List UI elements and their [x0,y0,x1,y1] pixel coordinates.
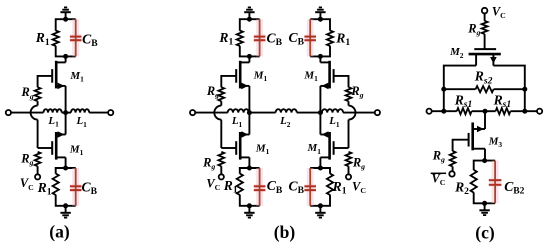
wire Rg-gate (c) [484,34,486,49]
label R1 BR (b) [332,179,347,197]
label L1 right (b) [328,115,340,129]
wire gate (bottom) B-left [221,147,236,149]
capacitor CB (top) A [70,19,82,56]
wire mid (a) [62,112,71,114]
wire hop-down B-left [220,120,222,148]
resistor Rg (top) B-right [346,87,352,101]
terminal input (b) [190,110,195,115]
wire mid-left (c) [472,110,485,112]
wire source-down B-left [248,86,250,113]
terminal VC B-right [346,174,351,179]
wire gate (bottom) A [38,147,53,149]
label VC BR (b) [352,180,366,196]
wire VC-Rg (c) [484,13,486,21]
wire input line (b) [195,112,228,114]
wire input line (a) [11,112,44,114]
resistor Rg top (c) [482,21,488,34]
wire source-down B-right [319,86,321,113]
node bias-bottom B-right [318,54,323,59]
label Rg TR (b) [350,84,363,100]
svg-text:(a): (a) [49,222,70,242]
resistor Rs2 (c) [476,86,494,92]
node Rs1 left (c) [441,109,446,114]
capacitor CB (top) B-left [254,19,266,56]
ground (c) [479,203,489,215]
wire hop-down B-right [348,120,350,148]
node loop-top (c) [482,158,487,163]
wire source-up B-left [248,113,250,135]
wire mid-right (c) [485,110,496,112]
wire top bias loop A [56,19,76,56]
resistor R1 (top) B-left [237,31,243,46]
label M2 (c) [449,46,464,60]
node bias-top (bottom loop) B-left [247,166,252,171]
label VC BL (b) [206,177,220,193]
wire Rg-to-hop B-right [348,101,350,105]
wire source-up B-right [319,113,321,135]
label CB2 (c) [504,179,524,197]
wire out-right (c) [510,110,537,112]
label VC (a) [20,176,34,192]
wire bottom bias loop A [56,168,76,206]
resistor Rs1 left (c) [457,108,472,114]
label CB top (a) [82,31,98,49]
inductor L1 right (a) [71,109,89,112]
wire source rail right (c) [493,66,524,112]
wire L1-L2 (b) [249,112,276,114]
wire gate (top) A [38,76,53,87]
wire source-up A [65,113,67,135]
wire bottom bias loop B-right [310,168,330,206]
label R1 BL (b) [223,178,238,196]
node center (c) [483,109,488,114]
label L2 (b) [279,115,291,129]
wire drain-up B-right [319,56,321,62]
transistor M1 (top) B-left [236,61,249,89]
wire drain-down A [65,157,67,168]
label (c) [475,223,495,243]
node Rs2 left (c) [441,87,446,92]
node top-rail A [63,17,68,22]
wire gate (top) B-right [334,76,349,87]
wire crossover hop B-right [349,106,356,120]
resistor R1 (bottom) A [53,174,59,195]
node loop-bottom (c) [482,201,487,206]
terminal VC A [35,174,40,179]
label Rg bottom (c) [432,149,445,165]
wire L2-L1 (b) [297,112,322,114]
ground (bottom) B-right [315,206,325,218]
label R1 TL (b) [218,30,233,48]
transistor M1 (top) A [52,61,65,89]
resistor R1 (top) A [53,31,59,46]
terminal left (c) [427,109,432,114]
inductor L1 left (a) [44,109,62,112]
transistor M2 (c) [469,49,501,66]
wire gate (bottom) B-right [334,147,349,149]
svg-text:(c): (c) [475,223,495,243]
wire Rg-to-VC B-left [220,166,222,174]
resistor Rg (bottom) B-right [346,152,352,166]
wire output line (b) [343,112,375,114]
wire Rg-to-VC B-right [348,166,350,174]
resistor R2 (c) [471,170,477,193]
label CB bottom (a) [82,179,98,197]
wire bottom bias loop B-left [240,168,260,206]
terminal VC (c) [482,8,488,14]
node bottom-rail B-left [247,203,252,208]
label R1 top (a) [35,30,50,48]
inductor L1 left (b) [228,109,249,112]
label M1 BR (b) [307,142,322,156]
ground (top) B-right [315,7,325,19]
wire gate (top) B-left [221,76,236,87]
wire Rs2 right (c) [494,88,525,90]
label R2 (c) [454,180,469,198]
wire M3 drain-down (c) [484,149,486,161]
label M1 top (a) [69,70,84,84]
label L1 right (a) [76,115,88,129]
label Rg TL (b) [206,84,219,100]
terminal VC B-left [219,174,224,179]
label Rs2 (c) [474,69,493,87]
wire source-down A [65,86,67,113]
resistor Rg (bottom) B-left [218,152,224,166]
wire Rg-to-hop B-left [220,101,222,105]
node bottom-rail B-right [318,203,323,208]
label L1 left (b) [231,115,243,129]
wire in-left (c) [432,110,457,112]
node bias-bottom B-left [247,54,252,59]
resistor Rs1 right (c) [496,108,511,114]
label Rs1 left (c) [454,93,473,111]
transistor M1 (bottom) B-right [320,131,333,159]
label L1 left (a) [47,115,59,129]
label Rg top (c) [467,22,480,38]
capacitor CB (top) B-right [304,19,316,56]
node bias-top (bottom loop) A [63,166,68,171]
label (a) [49,222,70,242]
wire crossover hop B-left [214,106,221,120]
resistor R1 (bottom) B-right [327,174,333,195]
label VC-bar (c) [431,171,446,187]
capacitor CB (bottom) B-left [254,168,266,206]
node center (a) [63,110,68,115]
terminal output (b) [375,110,380,115]
wire Rg-VCbar (c) [452,167,454,172]
wire Rs2 left (c) [444,88,476,90]
terminal input (a) [6,110,11,115]
node Rs1 right (c) [522,109,527,114]
transistor M1 (top) B-right [320,61,333,89]
label Rg BR (b) [352,156,365,172]
transistor M1 (bottom) B-left [236,131,249,159]
node top-rail B-right [318,17,323,22]
node Rs2 right (c) [522,87,527,92]
resistor Rg bottom (c) [450,151,456,166]
wire top bias loop B-left [240,19,260,56]
label M1 bottom (a) [69,143,84,157]
wire Rg-to-hop A [37,101,39,105]
label Rg top (a) [21,85,34,101]
wire drain rail left (c) [444,66,476,112]
ground (top) B-left [244,7,254,19]
label M3 (c) [488,136,503,150]
wire output line (a) [89,112,108,114]
node bias-bottom A [63,54,68,59]
wire drain-up B-left [248,56,250,62]
label CB BL (b) [267,178,283,196]
resistor R1 (top) B-right [327,31,333,46]
resistor Rg (top) B-left [218,87,224,101]
wire node-M3 (c) [484,111,486,129]
label R1 TR (b) [335,31,350,49]
label M1 BL (b) [255,143,270,157]
resistor Rg (bottom) A [35,152,41,166]
node bias-top (bottom loop) B-right [318,166,323,171]
svg-text:(b): (b) [274,222,296,242]
label VC top (c) [492,4,506,20]
terminal right (c) [537,109,542,114]
ground (bottom) B-left [244,206,254,218]
inductor L1 right (b) [322,109,343,112]
label Rg BL (b) [202,156,215,172]
ground (top) A [60,7,70,19]
wire crossover hop A [31,106,38,120]
label Rs1 right (c) [493,93,512,111]
label CB TL (b) [267,30,283,48]
label M1 TR (b) [303,69,318,83]
capacitor CB (bottom) B-right [304,168,316,206]
wire hop-down A [37,120,39,148]
node bottom-rail A [63,203,68,208]
node left (b) [247,110,252,115]
label CB BR (b) [289,178,305,196]
terminal output (a) [108,110,113,115]
label R1 bottom (a) [37,180,52,198]
capacitor CB2 (c) [489,161,502,204]
transistor M3 (c) [469,123,485,151]
wire drain-down B-right [319,157,321,168]
inductor L2 (b) [276,109,297,112]
label Rg bottom (a) [20,151,33,167]
node right (b) [318,110,323,115]
transistor M1 (bottom) A [52,131,65,159]
wire drain-down B-left [248,157,250,168]
wire top bias loop B-right [310,19,330,56]
node top-rail B-left [247,17,252,22]
label (b) [274,222,296,242]
wire drain-up A [65,56,67,62]
resistor Rg (top) A [35,87,41,101]
wire Rg-to-VC A [37,166,39,174]
wire R2 loop (c) [474,161,495,204]
label CB TR (b) [289,30,305,48]
terminal VC-bar (c) [449,171,454,176]
wire M3 gate (c) [453,140,469,151]
ground (bottom) A [60,206,70,218]
capacitor CB (bottom) A [70,168,82,206]
resistor R1 (bottom) B-left [237,174,243,195]
label M1 TL (b) [253,69,268,83]
